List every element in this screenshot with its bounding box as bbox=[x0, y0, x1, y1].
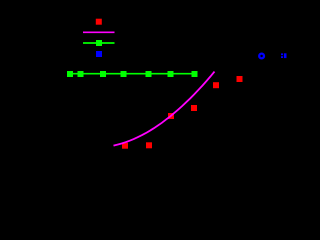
legend blue square marker bbox=[96, 51, 102, 57]
green horizontal data line bbox=[67, 73, 197, 75]
legend red square marker bbox=[96, 19, 102, 25]
legend green line sample bbox=[83, 42, 115, 44]
blue tiny label glyph bbox=[281, 53, 287, 58]
red data squares bbox=[122, 76, 243, 149]
magenta rising curve bbox=[114, 72, 215, 146]
legend green square marker bbox=[96, 40, 102, 46]
blue open circle marker bbox=[259, 54, 264, 59]
legend magenta line sample bbox=[83, 31, 115, 33]
green data squares bbox=[67, 71, 198, 77]
